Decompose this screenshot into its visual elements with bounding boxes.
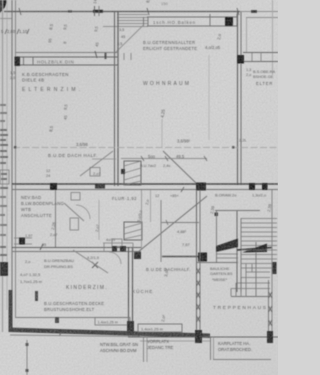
outer wall top — [4, 11, 240, 13]
bottom dimension vertical line — [26, 340, 28, 375]
stairwell right wall double — [268, 280, 270, 337]
dark blob on cross wall 3 — [249, 183, 255, 190]
stairwell left wall hatch — [197, 268, 201, 274]
stair inner verticals — [216, 211, 218, 262]
bottom outer wall thick (slight skew) — [9, 328, 211, 339]
bottom wall line right part — [128, 336, 278, 338]
dark blob right wall mid — [272, 262, 277, 274]
dark blob on cross wall 2 — [196, 183, 206, 191]
bath door arc — [76, 205, 90, 219]
neighbour top wall line — [246, 17, 278, 19]
dark blob kueche wall top — [134, 252, 141, 259]
left margin legend box — [0, 170, 9, 184]
stair landing bottom line — [196, 262, 238, 264]
stair center stringer — [255, 242, 257, 296]
interior wall vertical (Elternzimmer / Wohnraum, double) — [114, 12, 116, 186]
stair extra treads — [241, 249, 277, 251]
dark blob on cross wall 1 — [50, 183, 57, 190]
stair treads lower — [241, 263, 272, 265]
left margin small marks lower — [0, 246, 6, 248]
dark blob stair wall bottom left — [195, 330, 202, 343]
dark wall blob neighbour — [237, 55, 244, 64]
dark door blob — [19, 238, 25, 245]
wall Kinderzimmer/Kueche vertical (double dark) — [128, 247, 130, 337]
winder bottom line — [231, 296, 270, 298]
bath partition vertical — [55, 190, 57, 247]
small tick on top wall x68 — [68, 10, 72, 12]
stair newel dark dot — [215, 213, 219, 217]
kinderzimmer door post blobs — [112, 246, 117, 252]
chimney box upper (hatched) — [124, 161, 141, 185]
scan edge streak left — [2, 0, 4, 332]
bath inner partition faint — [98, 200, 100, 240]
kinderzimmer dim 85 tick — [40, 244, 43, 250]
outer wall left (double line) — [11, 0, 13, 330]
left margin dark bar — [0, 262, 8, 276]
bath diagonal — [64, 203, 84, 221]
bath fixture box 3 — [90, 168, 100, 177]
dark threshold on cross wall near bath — [95, 184, 105, 189]
Elternzimmer top wall band (three lines) — [15, 52, 118, 54]
diagonal tick on bottom band — [59, 330, 63, 336]
cross mark kinderzimmer — [92, 262, 98, 268]
left margin text stack — [0, 104, 6, 106]
scan edge streak left 2 — [6, 0, 8, 310]
dimension ticks row left — [5, 29, 7, 34]
beam hatch lines below top wall — [117, 14, 148, 16]
dark sill under closet — [162, 256, 207, 258]
dashed level line mid — [13, 147, 278, 149]
bottom wall lower line — [10, 335, 140, 337]
kinderzimmer diagonal — [73, 250, 108, 273]
stair treads left flight — [216, 253, 238, 255]
kueche window box with size — [138, 324, 182, 332]
dim dot mid line left — [14, 146, 17, 149]
kitchen roof diagonal (big) — [138, 196, 207, 252]
scan corner blotch — [0, 0, 8, 13]
small door box in band — [23, 57, 25, 65]
stair treads right flight — [241, 218, 277, 220]
diagonal brace top middle — [115, 25, 144, 53]
bath top short line — [92, 158, 116, 160]
dark tick at chimney left — [121, 169, 125, 174]
bottom dimension dots — [26, 343, 29, 346]
bottom verticals under kueche wall — [143, 337, 145, 362]
dormer diagonal right — [163, 151, 196, 183]
stair dark arrow right flight — [237, 248, 272, 251]
dark wall blob left end — [15, 57, 21, 67]
tick cross on band — [95, 51, 97, 58]
bottom right box lower line — [213, 359, 271, 361]
kitchen door arc — [109, 252, 121, 264]
dormer diagonal left — [80, 151, 113, 176]
door jamb ticks right of band — [123, 53, 125, 60]
chimney box lower (hatched) — [124, 222, 142, 240]
kinderzimmer window box on bottom wall — [95, 318, 130, 326]
dark blob on cross wall 4 — [262, 183, 268, 190]
stairwell right wall hatch — [269, 292, 273, 298]
kinderzimmer door lintel line — [103, 242, 133, 244]
dimension arrow row under dormer — [121, 158, 207, 160]
closet box above kitchen — [160, 200, 162, 262]
right edge faint vertical — [272, 0, 274, 75]
dim vertical under wall x150 — [150, 190, 152, 222]
main cross wall (dark, full width) — [12, 183, 278, 185]
dark blob stair wall bottom right — [267, 331, 273, 343]
vertical line right of chimney — [141, 190, 143, 250]
dim dot mid line right — [232, 146, 235, 149]
dark blob in lintel box — [225, 17, 233, 26]
outer wall top right (lighter) — [240, 11, 278, 13]
small box above door — [112, 239, 122, 247]
Kinderzimmer top wall — [12, 247, 141, 249]
bath fixture box 2 — [70, 218, 79, 230]
stair top landing line — [215, 210, 260, 212]
dark blob right of sill — [198, 253, 207, 262]
left bottom corner thick wall vertical — [9, 290, 13, 330]
neighbour room top wall band right — [243, 52, 278, 54]
tick on band x105 — [105, 53, 107, 59]
dark junction kueche wall bottom — [127, 321, 134, 333]
inner bottom wall line kinderzimmer — [16, 317, 129, 319]
winder steps nested corners — [246, 271, 270, 273]
dark tick on top wall — [93, 10, 103, 13]
door box above kinderzimmer wall — [14, 237, 32, 239]
winder step riser verticals above — [245, 264, 247, 272]
lintel box top with label — [147, 16, 237, 18]
tick on inner bottom wall — [55, 317, 59, 323]
stairwell left wall double — [196, 190, 198, 337]
dark tick on top wall right — [251, 10, 257, 13]
bottom right box verticals — [210, 337, 212, 360]
wall right of Wohnraum (double) — [237, 12, 239, 185]
top dim tick marks on outer wall — [94, 6, 96, 16]
stair dark landing left flight — [216, 239, 238, 253]
door jamb mark kinderzimmer left — [35, 291, 38, 301]
bath fixture box 1 — [71, 193, 80, 201]
neighbour partition line — [246, 18, 248, 54]
